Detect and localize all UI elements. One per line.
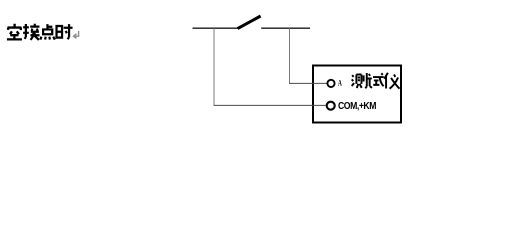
svg-text:COM,+KM: COM,+KM (338, 101, 376, 112)
title: 测 (box title char 1) (352, 73, 367, 88)
switch S blade (238, 16, 261, 29)
label A (338, 79, 342, 88)
wire: horizontal to terminal A (289, 82, 327, 84)
label COM,+KM (338, 101, 376, 112)
paragraph return mark (74, 31, 79, 38)
label: 点 (heading char 3) (40, 24, 54, 39)
label: 时 (heading char 4) (57, 24, 73, 39)
label: 接 (heading char 2) (23, 24, 39, 40)
wire: top right horizontal segment (261, 27, 310, 29)
svg-text:A: A (338, 79, 342, 88)
wire: left vertical drop (213, 28, 215, 105)
label: 空 (heading char 1) (7, 24, 22, 40)
wire: right vertical drop (289, 28, 291, 83)
wire: horizontal to terminal COM (214, 104, 326, 106)
terminal COM (327, 102, 335, 110)
title: 试 (box title char 2) (368, 73, 384, 88)
wire: top left horizontal segment (193, 27, 239, 29)
terminal A (327, 80, 334, 87)
title: 仪 (box title char 3) (384, 73, 399, 89)
tester box U1 (313, 66, 401, 123)
